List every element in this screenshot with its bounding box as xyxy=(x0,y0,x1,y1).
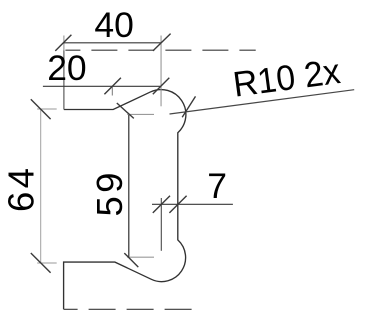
leader line R10 xyxy=(170,90,355,114)
svg-text:20: 20 xyxy=(47,48,86,88)
tick 20 right xyxy=(153,78,170,95)
svg-text:7: 7 xyxy=(207,166,227,206)
dimension line 59 xyxy=(128,114,130,257)
tick 7 right xyxy=(169,196,186,213)
dashed edge bottom xyxy=(64,308,193,310)
svg-text:64: 64 xyxy=(1,168,42,212)
tick 64 top xyxy=(31,99,51,119)
extension line 7 left xyxy=(160,198,162,251)
dimension line 40 xyxy=(64,42,161,44)
tick 59 top xyxy=(117,103,134,118)
svg-text:40: 40 xyxy=(94,5,133,45)
part left edge upper section xyxy=(63,50,65,109)
tick 20 left xyxy=(104,78,121,95)
tick 40 right xyxy=(153,34,171,51)
tick 64 bottom xyxy=(31,253,51,273)
part outline xyxy=(64,90,186,310)
tick on leader at arc xyxy=(182,96,195,117)
tick 7 left xyxy=(153,196,170,213)
extension line 64 top xyxy=(37,108,57,110)
extension line left (for 40 dim) xyxy=(63,36,65,51)
extension stub 59 bottom xyxy=(127,256,154,258)
svg-text:59: 59 xyxy=(89,173,130,217)
dimension line 64 xyxy=(40,109,42,263)
dashed edge top xyxy=(65,49,255,51)
extension stub 20 left xyxy=(111,86,113,95)
svg-text:R10 2x: R10 2x xyxy=(231,52,343,105)
tick 40 left xyxy=(55,35,71,51)
dimension line 7 xyxy=(152,203,233,205)
extension stub 59 top xyxy=(127,113,154,115)
extension line right (for 40/20 dims, to arc centre) xyxy=(160,36,162,107)
tick 59 bottom xyxy=(124,253,138,267)
dimension line 20 xyxy=(43,85,161,87)
extension line 64 bottom xyxy=(37,262,57,264)
